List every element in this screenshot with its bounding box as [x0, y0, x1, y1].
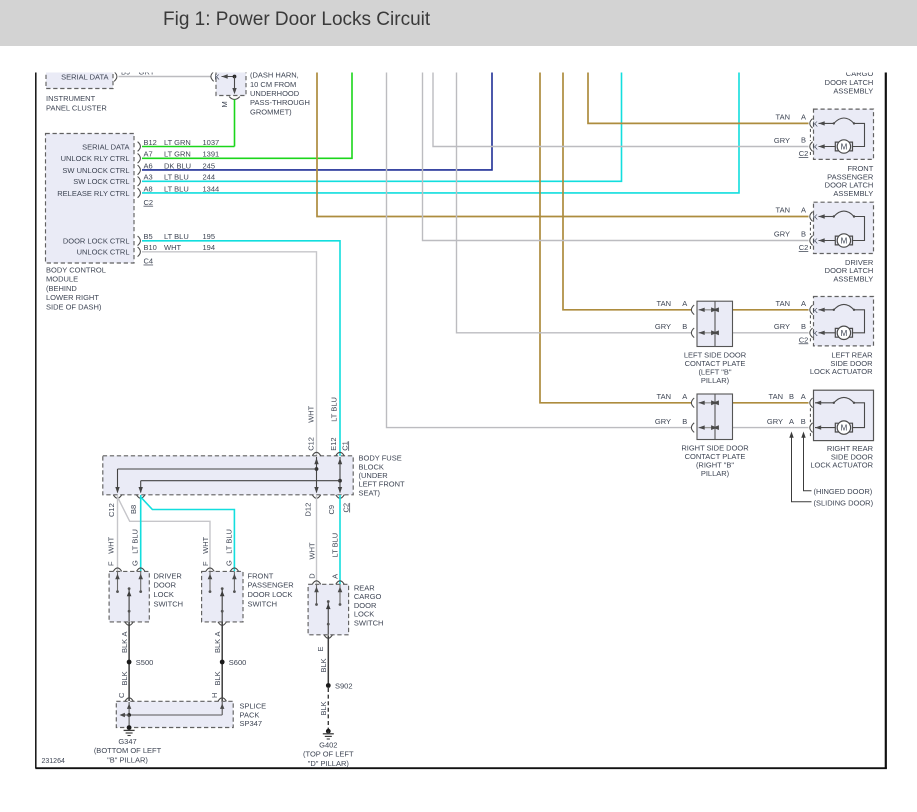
svg-text:WHT: WHT [164, 243, 181, 252]
svg-text:C1: C1 [340, 441, 349, 451]
splice pack bump H [218, 698, 226, 701]
svg-text:M: M [841, 329, 848, 338]
svg-text:DOOR LOCK CTRL: DOOR LOCK CTRL [63, 237, 130, 246]
svg-text:(BOTTOM OF LEFT: (BOTTOM OF LEFT [94, 746, 162, 755]
svg-text:C4: C4 [144, 257, 154, 266]
svg-text:231264: 231264 [42, 758, 65, 765]
svg-text:GRY: GRY [655, 417, 671, 426]
svg-text:BLK: BLK [319, 658, 328, 672]
wire BLK driver switch to splice pack [128, 622, 130, 701]
svg-text:SWITCH: SWITCH [248, 600, 278, 609]
wire LT BLU fuse block to rear cargo switch [339, 495, 341, 584]
svg-text:"D" PILLAR): "D" PILLAR) [308, 759, 350, 768]
svg-text:M: M [841, 143, 848, 152]
svg-text:A: A [682, 299, 687, 308]
ground G347 [127, 725, 132, 730]
junction node on serial data [233, 75, 237, 79]
svg-text:C2: C2 [799, 149, 809, 158]
connector K paren [211, 72, 214, 82]
wire A3 LT BLU 244 [142, 72, 622, 181]
svg-text:(HINGED DOOR): (HINGED DOOR) [814, 487, 873, 496]
svg-text:C2: C2 [799, 243, 809, 252]
body control module box [46, 134, 135, 264]
svg-text:M: M [220, 101, 229, 107]
svg-text:SWITCH: SWITCH [154, 600, 184, 609]
svg-text:G: G [131, 560, 140, 566]
wire TAN to driver latch [317, 72, 809, 217]
svg-text:K: K [813, 213, 818, 222]
fuse block bottom bump B8 [137, 495, 145, 498]
fuse block internal LT BLU bus [339, 457, 341, 493]
svg-text:TAN: TAN [776, 299, 790, 308]
wire B5 LT BLU 195 [142, 241, 340, 456]
svg-text:BODY CONTROL: BODY CONTROL [46, 265, 106, 274]
svg-text:SWITCH: SWITCH [354, 619, 384, 628]
svg-text:LT GRN: LT GRN [164, 150, 191, 159]
splice pack box [116, 701, 233, 727]
wire A6 DK BLU 245 [142, 72, 492, 170]
fuse block top bump C1 [336, 452, 344, 455]
wire GRY left plate to actuator [715, 332, 809, 334]
svg-text:B: B [801, 230, 806, 239]
svg-text:F: F [201, 561, 210, 566]
svg-text:E: E [316, 646, 325, 651]
svg-text:C9: C9 [327, 505, 336, 515]
diagram right border [885, 73, 887, 769]
fuse block bottom bump C2 [336, 495, 344, 498]
svg-text:LOCK ACTUATOR: LOCK ACTUATOR [810, 367, 873, 376]
wire GRY to front passenger latch [433, 72, 809, 147]
svg-text:244: 244 [203, 173, 216, 182]
grommet connector box [216, 64, 246, 96]
svg-text:LOCK: LOCK [154, 590, 174, 599]
svg-text:M: M [841, 424, 848, 433]
svg-text:B5: B5 [144, 232, 153, 241]
wire WHT fuse block to rear cargo switch [316, 495, 318, 584]
wire TAN right plate to actuator [715, 402, 809, 404]
svg-text:B: B [801, 417, 806, 426]
svg-text:LOWER RIGHT: LOWER RIGHT [46, 293, 99, 302]
svg-text:H: H [210, 693, 219, 698]
svg-text:SERIAL DATA: SERIAL DATA [61, 72, 108, 81]
svg-text:B12: B12 [144, 138, 157, 147]
wire TAN to left contact plate [563, 72, 691, 310]
splice pack internal bus [128, 702, 130, 715]
svg-text:TAN: TAN [657, 299, 671, 308]
svg-text:K: K [813, 119, 818, 128]
wire B12 LT GRN 1037 [142, 146, 235, 148]
svg-text:C2: C2 [144, 198, 154, 207]
svg-text:B: B [682, 322, 687, 331]
svg-text:CARGO: CARGO [354, 592, 382, 601]
svg-text:SW UNLOCK CTRL: SW UNLOCK CTRL [62, 166, 129, 175]
wire GRY to driver latch [423, 72, 809, 241]
svg-text:245: 245 [203, 161, 216, 170]
svg-text:S500: S500 [136, 658, 154, 667]
svg-text:A: A [789, 417, 794, 426]
fuse block top bump C12 [312, 452, 320, 455]
header band [0, 0, 917, 46]
svg-text:S902: S902 [335, 681, 353, 690]
svg-text:C2: C2 [341, 503, 350, 513]
svg-text:WHT: WHT [306, 405, 315, 422]
ground G402 [326, 729, 331, 734]
connector K arrow [222, 74, 228, 78]
svg-text:K: K [813, 237, 818, 246]
svg-text:GRY: GRY [774, 322, 790, 331]
svg-text:(UNDER: (UNDER [359, 471, 389, 480]
svg-text:10 CM FROM: 10 CM FROM [250, 80, 296, 89]
svg-text:PASSENGER: PASSENGER [248, 581, 295, 590]
svg-text:E12: E12 [329, 437, 338, 450]
svg-text:A8: A8 [144, 184, 153, 193]
svg-text:BLK: BLK [213, 639, 222, 653]
svg-text:GRY: GRY [767, 417, 783, 426]
fuse block bottom bump C12 left [113, 495, 121, 498]
svg-text:D12: D12 [303, 503, 312, 517]
svg-text:TAN: TAN [657, 392, 671, 401]
svg-text:BLK: BLK [120, 639, 129, 653]
front passenger door lock switch [202, 571, 243, 622]
svg-text:K: K [813, 306, 818, 315]
svg-text:TAN: TAN [769, 392, 783, 401]
driver door latch assembly [814, 202, 874, 253]
svg-text:GROMMET): GROMMET) [250, 107, 292, 116]
svg-text:ASSEMBLY: ASSEMBLY [833, 86, 873, 95]
svg-text:A: A [331, 574, 340, 579]
svg-text:A6: A6 [144, 161, 153, 170]
svg-text:SW LOCK CTRL: SW LOCK CTRL [73, 177, 129, 186]
splice pack bump C [125, 698, 133, 701]
svg-text:DOOR LOCK: DOOR LOCK [248, 590, 293, 599]
svg-text:DOOR: DOOR [154, 581, 177, 590]
svg-text:SEAT): SEAT) [359, 488, 381, 497]
svg-text:LT BLU: LT BLU [164, 184, 189, 193]
svg-text:194: 194 [203, 243, 216, 252]
svg-text:SERIAL DATA: SERIAL DATA [82, 142, 129, 151]
right side door contact plate [697, 394, 733, 440]
svg-text:DOOR: DOOR [354, 601, 377, 610]
wire WHT branch to passenger switch [118, 497, 211, 571]
svg-text:A: A [801, 392, 806, 401]
svg-text:A: A [213, 631, 222, 636]
instrument panel cluster box [46, 64, 113, 89]
wire A7 LT GRN 1391 [142, 72, 352, 158]
svg-text:G: G [225, 560, 234, 566]
wire BLK passenger switch to splice pack [221, 622, 223, 701]
svg-text:B8: B8 [129, 505, 138, 514]
svg-text:LT BLU: LT BLU [164, 173, 189, 182]
wire BLK rear cargo switch to S902 [327, 635, 329, 686]
wire WHT fuse block to driver switch [117, 495, 119, 571]
svg-text:DK BLU: DK BLU [164, 161, 191, 170]
svg-text:LEFT FRONT: LEFT FRONT [359, 480, 406, 489]
svg-text:UNLOCK RLY CTRL: UNLOCK RLY CTRL [61, 154, 130, 163]
svg-text:REAR: REAR [354, 583, 375, 592]
wire LT BLU fuse block to driver switch [140, 495, 142, 571]
svg-text:PILLAR): PILLAR) [701, 469, 730, 478]
wire BLK dashed to G402 [327, 688, 329, 730]
wire LT BLU branch to passenger switch [141, 497, 235, 571]
svg-text:GRY: GRY [655, 322, 671, 331]
svg-text:A: A [801, 113, 806, 122]
svg-text:GRY: GRY [774, 136, 790, 145]
wire TAN left plate to actuator [715, 309, 809, 311]
svg-text:TAN: TAN [776, 113, 790, 122]
left rear side door lock actuator [814, 297, 874, 346]
wire TAN to front passenger latch [588, 72, 809, 123]
connector M receptacle [229, 97, 240, 100]
wire B9 GRY serial data [119, 76, 212, 78]
svg-text:C: C [117, 692, 126, 698]
svg-text:PACK: PACK [240, 710, 260, 719]
svg-text:C12: C12 [307, 437, 316, 451]
svg-text:D: D [307, 573, 316, 579]
svg-text:SP347: SP347 [240, 719, 263, 728]
svg-text:LT BLU: LT BLU [330, 397, 339, 422]
svg-text:LT BLU: LT BLU [131, 529, 140, 554]
svg-text:MODULE: MODULE [46, 275, 78, 284]
IPC pin connector [114, 72, 117, 82]
svg-text:A3: A3 [144, 173, 153, 182]
svg-text:A: A [801, 299, 806, 308]
svg-text:SPLICE: SPLICE [240, 702, 267, 711]
svg-text:195: 195 [203, 232, 216, 241]
fuse block internal WHT bus [316, 457, 318, 493]
svg-text:G402: G402 [319, 740, 337, 749]
front passenger door latch assembly [814, 109, 874, 159]
svg-text:PANEL CLUSTER: PANEL CLUSTER [46, 103, 107, 112]
svg-text:(SLIDING DOOR): (SLIDING DOOR) [814, 498, 874, 507]
svg-text:LOCK ACTUATOR: LOCK ACTUATOR [810, 461, 873, 470]
svg-text:PASS-THROUGH: PASS-THROUGH [250, 98, 310, 107]
wire A8 LT BLU 1344 [142, 72, 739, 193]
wire LT GRN riser [234, 100, 236, 147]
left side door contact plate [697, 301, 733, 346]
wire GRY to right contact plate [387, 72, 692, 428]
right rear side door lock actuator [814, 390, 874, 440]
svg-text:GRY: GRY [774, 230, 790, 239]
svg-text:C12: C12 [107, 503, 116, 517]
splice S600 [220, 660, 225, 665]
svg-text:F: F [106, 561, 115, 566]
wire B10 WHT 194 [142, 252, 317, 456]
svg-text:LT BLU: LT BLU [225, 529, 234, 554]
svg-text:A7: A7 [144, 150, 153, 159]
svg-text:(TOP OF LEFT: (TOP OF LEFT [303, 750, 354, 759]
splice S902 [326, 683, 331, 688]
svg-text:TAN: TAN [776, 206, 790, 215]
diagram left border [35, 73, 37, 769]
svg-text:(BEHIND: (BEHIND [46, 284, 77, 293]
svg-text:DRIVER: DRIVER [154, 571, 183, 580]
svg-text:UNDERHOOD: UNDERHOOD [250, 89, 300, 98]
svg-text:ASSEMBLY: ASSEMBLY [833, 274, 873, 283]
svg-text:Fig 1: Power Door Locks Circui: Fig 1: Power Door Locks Circuit [163, 9, 431, 30]
svg-text:A: A [120, 631, 129, 636]
svg-text:SIDE OF DASH): SIDE OF DASH) [46, 303, 102, 312]
svg-text:ASSEMBLY: ASSEMBLY [833, 189, 873, 198]
svg-text:BODY FUSE: BODY FUSE [359, 454, 402, 463]
driver door lock switch [109, 571, 149, 622]
svg-text:A: A [682, 392, 687, 401]
svg-text:K: K [813, 143, 818, 152]
svg-text:1391: 1391 [203, 150, 220, 159]
svg-text:B: B [801, 136, 806, 145]
svg-text:WHT: WHT [201, 536, 210, 553]
fuse block bottom bump D12 [312, 495, 320, 498]
svg-text:BLK: BLK [319, 701, 328, 715]
splice S500 [127, 660, 132, 665]
svg-text:LT BLU: LT BLU [331, 533, 340, 558]
svg-text:S600: S600 [229, 658, 247, 667]
svg-text:LT GRN: LT GRN [164, 138, 191, 147]
svg-text:B: B [682, 417, 687, 426]
svg-text:WHT: WHT [307, 542, 316, 559]
sliding door pointer [789, 432, 793, 438]
svg-text:G347: G347 [118, 737, 136, 746]
grommet pass-through arrow [234, 77, 236, 92]
svg-text:LT BLU: LT BLU [164, 232, 189, 241]
svg-text:1344: 1344 [203, 184, 220, 193]
hinged door pointer [801, 432, 805, 438]
svg-text:RELEASE RLY CTRL: RELEASE RLY CTRL [57, 189, 129, 198]
svg-text:B10: B10 [144, 243, 157, 252]
diagram bottom border [35, 767, 887, 769]
svg-text:"B" PILLAR): "B" PILLAR) [107, 755, 148, 764]
svg-text:LOCK: LOCK [354, 610, 374, 619]
svg-text:M: M [841, 237, 848, 246]
svg-text:A: A [801, 206, 806, 215]
svg-text:1037: 1037 [203, 138, 220, 147]
wire GRY to left contact plate [457, 72, 692, 333]
svg-text:C2: C2 [799, 335, 809, 344]
rear cargo door lock switch [308, 584, 349, 635]
svg-text:BLOCK: BLOCK [359, 462, 384, 471]
svg-text:FRONT: FRONT [248, 571, 274, 580]
wire GRY right plate to actuator [715, 427, 809, 429]
svg-text:K: K [215, 73, 220, 82]
svg-text:K: K [813, 329, 818, 338]
svg-text:B: B [801, 322, 806, 331]
svg-text:PILLAR): PILLAR) [701, 376, 730, 385]
svg-text:B: B [789, 392, 794, 401]
svg-text:BLK: BLK [213, 671, 222, 685]
wire TAN to right contact plate [540, 72, 691, 403]
body fuse block box [103, 456, 353, 495]
svg-text:WHT: WHT [106, 536, 115, 553]
svg-text:INSTRUMENT: INSTRUMENT [46, 94, 96, 103]
svg-text:UNLOCK CTRL: UNLOCK CTRL [77, 248, 130, 257]
svg-text:BLK: BLK [120, 671, 129, 685]
